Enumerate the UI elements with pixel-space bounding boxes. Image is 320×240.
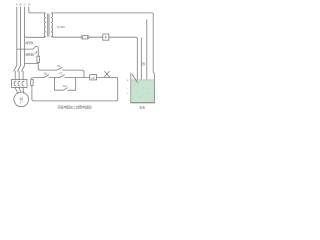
- stop button blade: [57, 68, 62, 71]
- svg-text:A: A: [16, 2, 18, 6]
- electrode wire 3 workpiece: [146, 20, 148, 89]
- svg-text:溶液: 溶液: [139, 104, 145, 109]
- electrode wire 2: [140, 38, 142, 89]
- switch QS pole C blade: [22, 65, 25, 71]
- tank liquid: [131, 80, 154, 103]
- wire fuse to top rail corner: [38, 63, 40, 71]
- svg-text:3~: 3~: [20, 101, 24, 105]
- svg-text:-: -: [127, 86, 128, 90]
- wire pole B to relay: [18, 71, 20, 79]
- control top rail with stop button: [40, 70, 84, 77]
- latch branch left vertical: [54, 77, 56, 90]
- svg-text:熔断器: 熔断器: [25, 52, 34, 57]
- ammeter box: [103, 34, 109, 40]
- KM aux contact blade: [63, 88, 68, 91]
- svg-text:简易电解加工装置电路图: 简易电解加工装置电路图: [58, 105, 93, 110]
- wire relay to motor 1: [15, 88, 18, 94]
- wire relay to motor 3: [23, 88, 24, 94]
- latch branch right vertical: [75, 77, 77, 90]
- wire phase C vertical: [24, 7, 26, 65]
- wire pole C to relay: [22, 71, 24, 79]
- wire pole A to relay: [14, 71, 16, 79]
- svg-text:KM: KM: [91, 77, 95, 80]
- svg-text:+: +: [127, 79, 129, 83]
- fuse FU2 wire: [32, 77, 34, 101]
- fuse FU1 box: [37, 56, 40, 62]
- liquid specks: [134, 85, 149, 99]
- wire secondary top to right edge: [53, 13, 154, 73]
- tank bottom emphasis: [131, 102, 155, 104]
- control main rail segment 1: [33, 77, 118, 101]
- transformer T primary winding: [44, 13, 46, 37]
- tank vessel: [131, 73, 155, 103]
- ammeter dot: [105, 36, 107, 38]
- fuse FU2 box: [31, 79, 33, 85]
- svg-text:KM: KM: [63, 85, 67, 88]
- svg-text:C: C: [24, 2, 26, 6]
- svg-text:FR: FR: [59, 73, 62, 76]
- KM coil box: [90, 75, 97, 80]
- arrow to fuse: [34, 52, 37, 55]
- svg-text:SB₂: SB₂: [44, 73, 48, 76]
- relay heater element 1: [14, 81, 16, 86]
- switch QS pole B blade: [18, 65, 21, 71]
- switch X symbol: [105, 71, 111, 77]
- wire phase A vertical: [16, 7, 18, 65]
- wire C to control junction: [25, 63, 39, 65]
- relay heater element 2: [18, 81, 20, 86]
- relay heater element 3: [22, 81, 24, 86]
- svg-text:4CM6: 4CM6: [57, 25, 65, 29]
- svg-text:SB₁: SB₁: [57, 65, 61, 68]
- FR contact blade: [60, 75, 65, 78]
- tank liquid surface: [131, 79, 154, 81]
- wire phase C to transformer primary bottom: [25, 36, 45, 38]
- anode plate diagonal: [132, 74, 137, 82]
- svg-text:单刀开关: 单刀开关: [25, 40, 34, 45]
- thermal relay FR box: [12, 80, 28, 88]
- switch S wire with blade: [17, 46, 38, 56]
- wire neutral N to transformer primary top: [29, 7, 45, 13]
- transformer T secondary winding: [51, 13, 53, 37]
- wire phase B vertical: [20, 7, 22, 65]
- small pink mark 1: [127, 93, 128, 95]
- transformer T core: [48, 14, 49, 37]
- latch branch bottom with KM contact: [55, 89, 76, 91]
- rheostat capsule: [81, 36, 89, 40]
- switch QS pole A blade: [14, 65, 17, 71]
- rheostat inner mark: [83, 36, 88, 38]
- svg-text:工件: 工件: [141, 62, 146, 66]
- wire secondary bottom rail: [53, 37, 138, 89]
- start button blade: [44, 75, 49, 78]
- wire relay to motor 2: [19, 88, 21, 93]
- svg-text:N: N: [28, 2, 30, 6]
- motor M circle: [14, 92, 29, 107]
- svg-text:B: B: [20, 2, 22, 6]
